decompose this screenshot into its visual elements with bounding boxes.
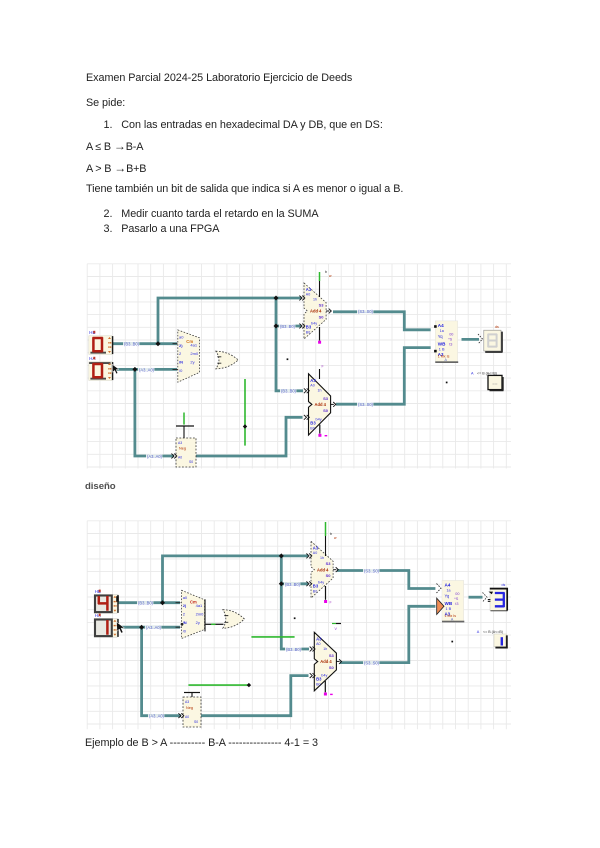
adder carry-in stub (green constant + pin): [319, 272, 321, 281]
hex input HA (bottom, value 0): [89, 356, 113, 380]
wire: subtractor sum to mux input B: [336, 348, 431, 405]
wire: adder sum to mux input A: [333, 312, 431, 330]
svg-text:1h: 1h: [323, 647, 327, 651]
wire: subtractor sum to mux input B: [340, 606, 435, 662]
svg-text:B0: B0: [316, 682, 320, 686]
svg-text:(A3..A0): (A3..A0): [146, 625, 162, 630]
mux output arrow marks: [478, 334, 483, 344]
adder Add4 (B+B): [311, 541, 338, 598]
svg-text:b4y: b4y: [318, 581, 324, 585]
7-segment display DS (off, ghost 8): [484, 330, 503, 352]
svg-text:(B3..B0): (B3..B0): [285, 582, 301, 587]
svg-text:1h: 1h: [320, 556, 324, 560]
svg-text:Yq: Yq: [445, 593, 450, 598]
svg-text:Neg: Neg: [186, 706, 193, 710]
LED output box A<=B (off): [488, 375, 504, 390]
comparator input pin stubs: [173, 344, 178, 370]
junction at adder A tap: [279, 553, 284, 558]
stray cursor dot 1: [287, 358, 289, 360]
subtractor carry-in marks: [332, 623, 336, 625]
endpoint dot on green wire B: [247, 683, 251, 687]
svg-text:WB: WB: [445, 601, 453, 606]
svg-text:A3: A3: [313, 545, 319, 550]
svg-text:b4y: b4y: [321, 673, 327, 677]
or gate: [223, 610, 245, 629]
wire label adder sum: [357, 310, 373, 315]
hex input HA (bottom, value 1): [94, 613, 118, 637]
wire label adder sum: [363, 569, 379, 574]
complementer Neg4: [176, 438, 196, 467]
junction on A bus: [139, 625, 144, 630]
svg-text:S0: S0: [326, 573, 332, 578]
svg-text:1 B: 1 B: [446, 607, 452, 611]
comparator output wire to or gate (black with green segment): [205, 623, 223, 625]
subtractor Add4 (B-A): [314, 632, 341, 691]
wire label subtractor A input: [280, 389, 296, 394]
mux MXa4 (input B selected): [437, 580, 465, 622]
wire label B bus: [137, 601, 153, 606]
wire: vertical B distribution: [281, 556, 309, 649]
junction at adder B tap: [279, 581, 284, 586]
subtractor input pin marks: [304, 388, 309, 393]
wire: complementer output to subtractor inverted input: [201, 676, 309, 716]
junction on A bus: [132, 367, 137, 372]
complementer enable tee: [183, 413, 185, 425]
svg-text:V: V: [335, 627, 338, 631]
wire: vertical B distribution to adder input B and subtractor input A: [276, 298, 303, 391]
wire: B bus from input HB to comparator: [117, 601, 180, 604]
svg-text:4a1: 4a1: [196, 603, 203, 608]
stray cursor dot 1: [294, 617, 296, 619]
svg-text:S3: S3: [329, 653, 335, 658]
junction on B bus: [160, 600, 165, 605]
svg-text:00: 00: [455, 592, 459, 596]
stray cursor dot 2: [451, 641, 453, 643]
wire label adder B tap: [284, 582, 300, 587]
wire: complementer output to subtractor inverted input: [196, 417, 303, 456]
svg-text:b: b: [330, 532, 332, 536]
wire label adder B tap: [279, 325, 295, 330]
subtractor carry-in pin: [319, 369, 321, 379]
svg-text:Add 4: Add 4: [320, 659, 332, 664]
svg-text:A0: A0: [313, 551, 317, 555]
wire: mux output to display DS: [462, 338, 480, 341]
svg-text::: :: [325, 568, 326, 572]
mux MXa4: [434, 321, 458, 363]
free green wire segment B: [188, 684, 249, 686]
subtractor input pin marks: [310, 647, 315, 652]
complementer enable tee: [184, 692, 200, 694]
7-segment display DS (value 3): [488, 588, 508, 611]
free green wire segment A: [251, 636, 294, 638]
pin dot on comparator left edge: [181, 623, 184, 626]
wire label A bus: [145, 626, 161, 631]
svg-text:A4: A4: [445, 582, 451, 587]
svg-text:1a: 1a: [447, 588, 451, 592]
wire: B bus from input HB to comparator: [112, 342, 177, 345]
svg-text:*S: *S: [454, 597, 458, 601]
wire label subtractor A input: [285, 648, 301, 653]
svg-text:Add 4: Add 4: [317, 567, 329, 572]
or gate: [216, 351, 239, 369]
svg-text:F: F: [330, 601, 332, 605]
wire: B bus up and over to adder input A: [163, 556, 309, 603]
stray cursor dot 2: [446, 382, 448, 384]
subtractor carry-out dot: [324, 681, 326, 692]
complementer Neg4: [183, 697, 201, 727]
svg-text:(A3..A0): (A3..A0): [149, 714, 165, 719]
svg-text:2y: 2y: [196, 620, 200, 625]
svg-text:w: w: [334, 536, 337, 540]
wire label complementer input: [148, 714, 164, 719]
LED output box A<=B (on, value 1): [494, 634, 508, 648]
svg-text:t3: t3: [455, 602, 458, 606]
free green wire segment (vertical probe): [244, 379, 246, 446]
endpoint dot on green wire: [243, 424, 247, 428]
junction on B bus: [156, 341, 161, 346]
wire: A bus from input HA to comparator: [112, 368, 177, 371]
svg-text:S0: S0: [329, 665, 335, 670]
svg-text:ds: ds: [502, 583, 506, 587]
wire label B bus: [123, 342, 139, 347]
comparator input pin stubs: [176, 603, 181, 628]
grid background: [87, 264, 511, 469]
hex input HB (top, value 4): [94, 589, 118, 613]
svg-text:A0: A0: [185, 715, 189, 719]
wire label subtractor sum: [357, 403, 373, 408]
wire: A bus down to complementer: [142, 627, 181, 716]
adder carry chain lower pin and carry-out dot: [319, 327, 321, 341]
svg-text:(B3..B0): (B3..B0): [286, 647, 302, 652]
adder carry-in stub: [325, 522, 327, 536]
junction at adder B tap: [274, 324, 279, 329]
wire: mux output to display DS: [469, 596, 483, 599]
svg-text:S0: S0: [194, 720, 198, 724]
svg-text:S3: S3: [326, 561, 332, 566]
svg-text:(S3..S0): (S3..S0): [364, 661, 380, 666]
black pin blob at HB output: [116, 596, 119, 602]
adder input pin stubs: [306, 554, 311, 559]
svg-text:A: A: [477, 630, 480, 634]
svg-text:A0: A0: [316, 642, 320, 646]
adder carry-out dot: [325, 586, 327, 600]
wire: branch to adder input B: [276, 325, 301, 328]
wire: adder sum to mux input A: [337, 571, 435, 589]
hex input HB (top, value 0): [89, 330, 113, 354]
svg-text:<= B (A<=B): <= B (A<=B): [483, 630, 503, 634]
wire label A bus: [138, 368, 154, 373]
comparator Cmp4: [182, 590, 206, 638]
svg-text:2m0: 2m0: [196, 611, 205, 616]
svg-text:(B3..B0): (B3..B0): [138, 601, 154, 606]
svg-text:A3: A3: [185, 700, 189, 704]
svg-text::: :: [328, 660, 329, 664]
mouse cursor over input HA output: [112, 364, 119, 374]
svg-text:a0: a0: [183, 595, 188, 600]
subtractor carry-out dot: [319, 425, 321, 434]
wire: B bus up and over to adder input A: [158, 298, 301, 344]
subtractor Add4 (B-A): [309, 374, 336, 435]
wire: A bus from input HA to comparator: [117, 626, 180, 629]
grid background: [87, 521, 511, 729]
junction at adder A tap: [274, 296, 279, 301]
svg-text:(S3..S0): (S3..S0): [364, 568, 380, 573]
mux output arrow marks: [483, 593, 488, 602]
wire: branch to adder input B: [281, 582, 308, 585]
wire label subtractor sum: [363, 661, 379, 666]
adder Add4 (B+B): [304, 283, 331, 339]
document text block: [86, 72, 352, 84]
comparator Cmp4: [178, 330, 200, 382]
wire label complementer input: [146, 455, 162, 460]
wire: A bus down to complementer: [135, 369, 174, 456]
adder input pin stubs: [299, 296, 304, 301]
svg-text:A3: A3: [316, 636, 322, 641]
mouse cursor over input HA output: [117, 622, 125, 633]
svg-text:B0: B0: [313, 590, 317, 594]
